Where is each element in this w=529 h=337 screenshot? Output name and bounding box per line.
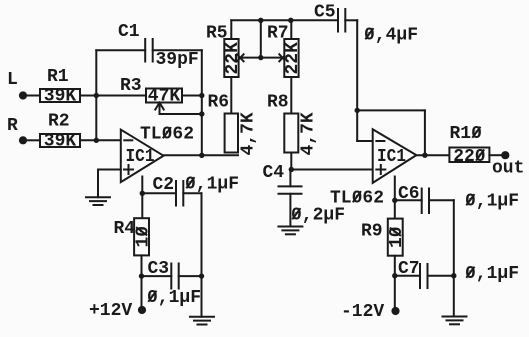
wire R10 to out — [489, 154, 501, 156]
svg-text:C4: C4 — [263, 163, 285, 183]
svg-text:R: R — [7, 116, 18, 136]
wire op-amp1 non-inverting to ground — [98, 170, 121, 198]
svg-text:TL062: TL062 — [330, 189, 384, 209]
svg-text:C2: C2 — [153, 175, 175, 195]
ground bottom center — [190, 317, 214, 325]
svg-text:R9: R9 — [361, 222, 383, 242]
capacitor C5 0,4uF — [314, 3, 418, 46]
ground bottom right — [443, 317, 467, 325]
svg-text:39pF: 39pF — [156, 50, 199, 70]
svg-text:out: out — [492, 159, 524, 179]
junction dot wiper rail — [258, 18, 263, 23]
junction dot C6 tap — [392, 198, 397, 203]
svg-text:39K: 39K — [44, 132, 77, 152]
svg-text:L: L — [7, 70, 18, 90]
R3 wiper arrow — [155, 103, 202, 115]
capacitor C3 0,1uF — [142, 259, 202, 308]
resistor R10 220 — [449, 124, 489, 167]
wire R to R2 — [26, 139, 40, 141]
svg-text:-12V: -12V — [341, 302, 384, 322]
svg-text:C6: C6 — [398, 184, 420, 204]
wire op-amp2 power pin down — [394, 177, 396, 219]
svg-text:R10: R10 — [450, 124, 482, 144]
output terminal out — [492, 151, 524, 178]
wire R2 to op-amp inverting input — [80, 139, 121, 141]
svg-text:4,7K: 4,7K — [299, 112, 319, 155]
wire R7 top — [290, 20, 292, 39]
op-amp U1A IC1 — [121, 125, 194, 183]
svg-text:C3: C3 — [148, 259, 170, 279]
junction dot op-amp1 output — [199, 153, 204, 158]
wire L to R1 — [26, 95, 40, 97]
junction dot R3 wiper — [199, 111, 204, 116]
wire R3 right — [182, 95, 202, 97]
junction dot R2 node — [94, 138, 99, 143]
resistor R9 10 — [361, 219, 407, 256]
op-amp U1B IC1 — [330, 129, 416, 208]
input terminal L — [7, 70, 27, 100]
junction dot C3 right — [199, 273, 204, 278]
top rail wire to C5 — [231, 19, 338, 21]
wire R5 top to top rail — [230, 20, 232, 39]
ground C4 — [278, 227, 302, 235]
svg-text:R8: R8 — [267, 93, 289, 113]
svg-text:22K: 22K — [283, 42, 303, 75]
junction dot C7 right — [451, 273, 456, 278]
capacitor C2 0,1uF — [142, 175, 239, 206]
wire R6 to R5 — [230, 77, 232, 114]
wire to op-amp2 non-inverting input — [291, 169, 372, 171]
svg-text:4,7K: 4,7K — [239, 112, 259, 155]
junction dot R8/C4 — [289, 167, 294, 172]
svg-text:C7: C7 — [398, 259, 420, 279]
capacitor C6 0,1uF — [395, 184, 519, 213]
wire op-amp1 power pin down — [141, 177, 143, 219]
power terminal +12V — [89, 301, 146, 321]
junction dot C2 tap — [140, 191, 145, 196]
ground op-amp1 — [86, 197, 110, 205]
junction dot R3 right — [199, 93, 204, 98]
wire R9 bottom — [394, 256, 396, 307]
svg-text:R6: R6 — [208, 93, 230, 113]
feedback wire to output — [357, 110, 425, 155]
svg-text:R1: R1 — [47, 67, 69, 87]
wiper line with arrows R5 R7 — [237, 54, 286, 61]
power terminal -12V — [341, 302, 400, 322]
svg-text:R3: R3 — [120, 76, 142, 96]
wire op-amp1 output — [164, 154, 239, 156]
svg-text:R2: R2 — [48, 112, 70, 132]
wire R8 bottom to op-amp2 plus — [290, 153, 292, 170]
capacitor C1 39pF — [96, 22, 202, 70]
resistor R1 39K — [40, 67, 80, 107]
svg-text:IC1: IC1 — [126, 147, 155, 167]
potentiometer R7 22K — [267, 24, 303, 78]
potentiometer R5 22K — [206, 24, 243, 78]
node junction R1/R2 summing vertical — [95, 50, 97, 140]
resistor R8 4,7K — [267, 93, 319, 156]
wire op-amp2 output — [416, 154, 449, 156]
junction dot C7 left — [392, 273, 397, 278]
junction dot R7 top — [288, 18, 293, 23]
input terminal R — [7, 116, 27, 144]
junction dot wiper line — [258, 55, 263, 60]
svg-text:R7: R7 — [267, 24, 289, 44]
wire C1 right vertical to output node — [201, 50, 203, 155]
wire R7 to R8 — [290, 77, 292, 114]
capacitor C4 0,2uF — [263, 163, 346, 227]
resistor R6 4,7K — [208, 93, 259, 156]
resistor R2 39K — [40, 112, 80, 152]
svg-text:220: 220 — [453, 147, 485, 167]
wiper tap vertical wire — [260, 20, 262, 57]
svg-text:47K: 47K — [148, 86, 181, 106]
resistor R4 10 — [114, 218, 154, 255]
wire C5 down to op-amp2 inverting input — [357, 20, 373, 141]
svg-text:R4: R4 — [114, 219, 136, 239]
svg-text:+12V: +12V — [89, 301, 132, 321]
wire C6 right vertical down to ground — [453, 200, 455, 316]
resistor R3 47K trimmer — [120, 76, 182, 106]
junction dot op-amp2 output — [422, 153, 427, 158]
svg-text:10: 10 — [387, 226, 407, 248]
wire R4 bottom — [141, 255, 143, 306]
svg-text:39K: 39K — [44, 87, 77, 107]
svg-text:C1: C1 — [118, 22, 140, 42]
wire R1 to R3 — [80, 95, 146, 97]
junction dot R1 node — [94, 93, 99, 98]
svg-text:C5: C5 — [314, 3, 336, 23]
wire C2 right vertical down to ground — [201, 193, 203, 316]
junction dot C3 left — [139, 273, 144, 278]
svg-text:10: 10 — [133, 226, 153, 248]
junction dot feedback — [355, 108, 360, 113]
svg-text:IC1: IC1 — [377, 147, 406, 167]
svg-text:TL062: TL062 — [140, 125, 194, 145]
svg-text:R5: R5 — [206, 24, 228, 44]
capacitor C7 0,1uF — [395, 259, 519, 288]
